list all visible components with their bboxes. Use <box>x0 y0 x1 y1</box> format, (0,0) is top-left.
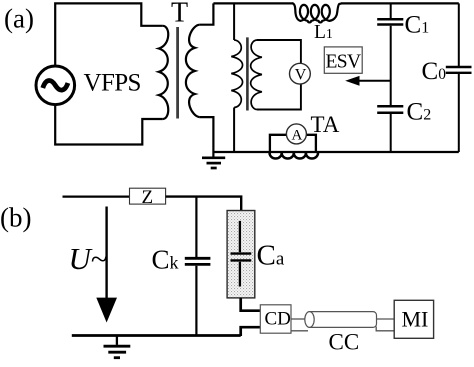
capacitor Ck <box>185 257 211 260</box>
ground of (a) <box>202 152 225 168</box>
wire CD to cable lower <box>291 330 308 332</box>
wire top bus right segment <box>341 2 459 4</box>
wire (b) top rail right <box>166 197 242 211</box>
arrowhead ESV <box>345 76 359 86</box>
wire voltmeter loop top <box>257 40 301 63</box>
voltmeter V <box>290 63 311 84</box>
svg-text:L1: L1 <box>314 22 333 43</box>
inductor L1 <box>292 3 341 22</box>
wire T secondary bottom stub <box>200 117 214 152</box>
svg-text:A: A <box>292 128 303 144</box>
wire CD to cable upper <box>291 318 307 320</box>
wire C1-C2 middle <box>390 26 392 105</box>
wire left loop bottom <box>55 106 163 145</box>
wire measuring bus vertical bottom <box>233 108 235 153</box>
svg-text:CD: CD <box>265 308 291 329</box>
wire Ca bottom to CD <box>241 298 261 311</box>
svg-text:TA: TA <box>311 112 340 137</box>
source VFPS sine <box>43 81 68 91</box>
wire (b) top rail left <box>63 196 130 198</box>
current transformer TA winding <box>270 153 318 159</box>
capacitor Ca inner conductor bottom <box>239 262 241 287</box>
arrow U line <box>105 207 107 301</box>
svg-text:Z: Z <box>142 187 154 208</box>
capacitor Ca inner conductor top <box>239 221 241 252</box>
svg-text:CC: CC <box>329 330 360 355</box>
wire bus to CD lower terminal <box>241 327 261 336</box>
capacitor C1 <box>377 18 403 21</box>
svg-text:C2: C2 <box>407 99 432 126</box>
wire bottom bus of (b) <box>72 334 241 337</box>
svg-text:C0: C0 <box>422 58 447 85</box>
svg-text:(a): (a) <box>4 4 34 34</box>
wire C1 top stub <box>390 3 392 18</box>
wire right edge bottom <box>458 74 460 152</box>
current transformer TA loop <box>270 135 316 151</box>
capacitor C2 <box>377 105 403 108</box>
wire cable to MI lower <box>376 327 394 331</box>
wire T secondary top stub <box>200 3 214 24</box>
transformer TV core <box>246 37 249 110</box>
wire right edge top <box>458 3 460 66</box>
transformer T primary winding <box>159 26 168 119</box>
box ESV <box>324 47 362 73</box>
ammeter A <box>286 124 306 144</box>
transformer T secondary winding <box>186 25 200 117</box>
wire left loop top <box>55 3 163 66</box>
svg-text:C1: C1 <box>405 11 430 38</box>
cable CC left end <box>305 312 314 328</box>
wire Ck bottom <box>195 266 197 336</box>
transformer TV secondary winding <box>251 40 262 110</box>
capacitor Ca plates <box>231 252 252 254</box>
svg-text:Ck: Ck <box>152 244 179 274</box>
wire voltmeter loop bottom <box>257 85 301 110</box>
svg-text:Ca: Ca <box>257 240 285 272</box>
svg-text:V: V <box>295 66 307 83</box>
arrowhead U <box>96 298 117 323</box>
wire measuring bus vertical top <box>233 3 235 40</box>
source VFPS circle <box>36 66 75 105</box>
box Z <box>130 188 166 204</box>
svg-text:(b): (b) <box>0 203 31 233</box>
test object Ca body <box>227 211 255 298</box>
box CD <box>260 305 291 333</box>
wire C2 bottom stub <box>390 114 392 152</box>
ground of (b) <box>104 336 131 358</box>
box MI <box>394 300 433 338</box>
transformer T core <box>176 27 179 119</box>
wire bottom bus of (a) <box>213 151 458 153</box>
svg-text:ESV: ESV <box>326 51 362 72</box>
wire arrow to ESV <box>357 80 391 82</box>
wire Ck top <box>195 196 197 258</box>
svg-text:VFPS: VFPS <box>84 70 141 97</box>
svg-text:T: T <box>171 0 188 29</box>
svg-text:U~: U~ <box>69 241 108 276</box>
svg-text:MI: MI <box>402 307 429 332</box>
cable CC body <box>310 312 377 328</box>
capacitor C0 <box>446 66 472 68</box>
wire cable to MI upper <box>377 318 395 320</box>
transformer TV primary winding <box>231 40 242 108</box>
wire top bus left segment <box>213 2 293 4</box>
